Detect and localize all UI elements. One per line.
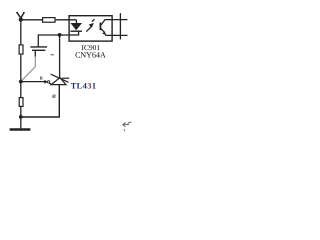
svg-text:R: R	[40, 75, 44, 80]
svg-text:TL431: TL431	[71, 82, 97, 91]
svg-text:CNY64A: CNY64A	[75, 51, 106, 60]
